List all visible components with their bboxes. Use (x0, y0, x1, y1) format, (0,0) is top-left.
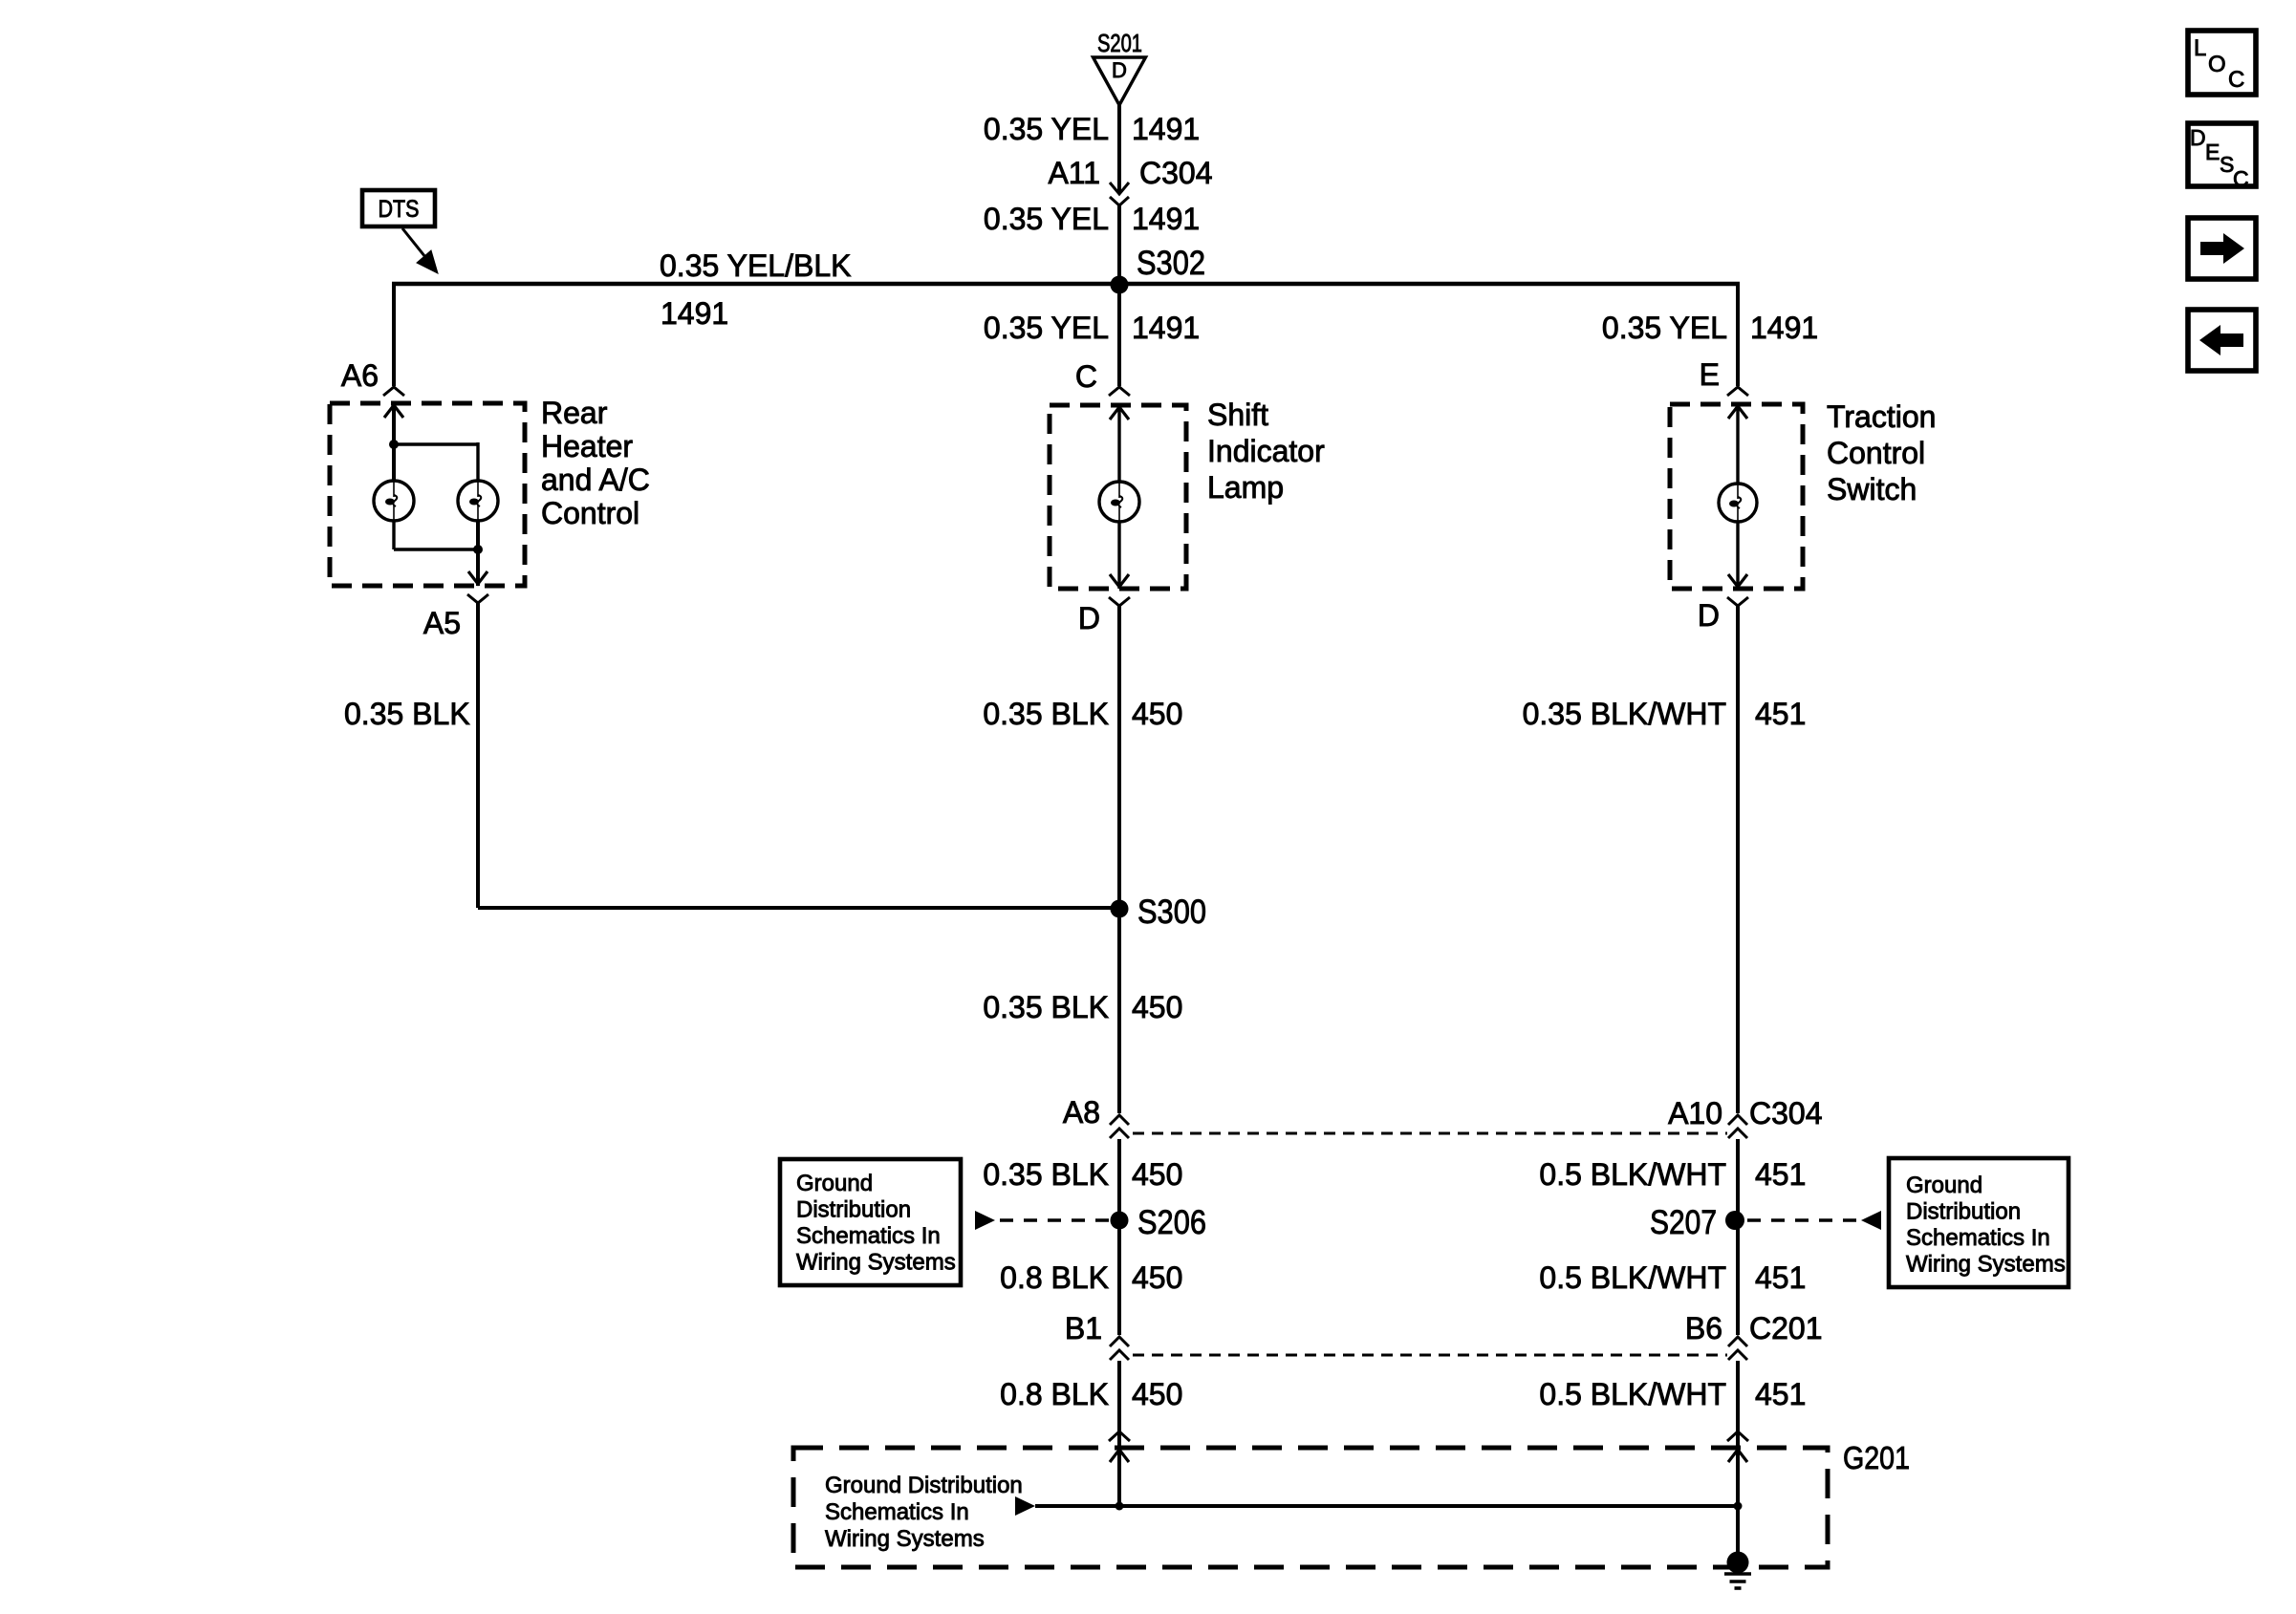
svg-text:RearHeaterand A/CControl: RearHeaterand A/CControl (541, 396, 650, 530)
icon box arrow right (2188, 218, 2256, 279)
svg-text:451: 451 (1755, 1377, 1806, 1411)
icon box arrow left (2188, 310, 2256, 371)
entry arrow at A6 inside box (384, 405, 403, 418)
svg-text:B1: B1 (1065, 1311, 1102, 1345)
pin chevron into G201 (right) (1727, 1431, 1748, 1441)
label box DTS (362, 190, 435, 226)
entry arrow at C inside box (1110, 407, 1129, 420)
exit arrow at D inside box (1728, 574, 1747, 587)
wire: left drop from bus to pin A6 (392, 284, 396, 386)
svg-text:0.35 BLK: 0.35 BLK (983, 697, 1109, 731)
wire: pin E down to lamp (1736, 404, 1739, 484)
junction dot center wire to ground bus (1116, 1502, 1124, 1511)
icon box DESC (2188, 123, 2256, 186)
wire 0.5 BLK/WHT 451 from C201 to ground G201 (1736, 1361, 1740, 1506)
callout arrow (right, pointing left) (1861, 1211, 1881, 1230)
dashed leader from S207 to callout (1747, 1218, 1856, 1221)
svg-text:0.8 BLK: 0.8 BLK (1000, 1377, 1109, 1411)
svg-text:0.8 BLK: 0.8 BLK (1000, 1260, 1109, 1295)
wire 0.5 BLK/WHT 451 from S207 to C201 pin B6 (1736, 1280, 1740, 1335)
lamp: shift indicator lamp (1099, 482, 1139, 522)
wire 0.35 BLK/WHT 451 from D down to C304 pin A10 (1736, 606, 1740, 1113)
entry arrow at E inside box (1728, 406, 1747, 419)
svg-text:0.35 YEL/BLK: 0.35 YEL/BLK (660, 248, 851, 283)
pin chevron into G201 (1109, 1431, 1130, 1441)
svg-text:S300: S300 (1137, 893, 1206, 931)
svg-text:A10: A10 (1668, 1096, 1722, 1130)
callout arrow inside G201 (1015, 1496, 1035, 1516)
svg-text:S302: S302 (1137, 245, 1205, 282)
svg-text:0.35 YEL: 0.35 YEL (984, 202, 1109, 236)
wire 0.8 BLK 450 from C201 to ground G201 (1117, 1361, 1121, 1506)
svg-text:B6: B6 (1685, 1311, 1722, 1345)
svg-text:D: D (1112, 58, 1127, 82)
svg-text:0.35 YEL: 0.35 YEL (1602, 311, 1727, 345)
svg-text:D: D (2190, 125, 2206, 150)
lamp: traction control switch illumination (1719, 484, 1757, 522)
svg-text:C: C (2228, 67, 2244, 93)
component box: Shift Indicator Lamp (dashed) (1050, 405, 1186, 589)
wire 0.35 YEL 1491 right drop from bus to pin E (1736, 284, 1740, 386)
wire 0.35 BLK 450 from D down to S300 (1117, 606, 1121, 910)
svg-text:S207: S207 (1650, 1204, 1717, 1241)
wire 0.35 YEL 1491 from S201 to C304 pin A11 (1117, 105, 1121, 192)
pin chevron D (1109, 597, 1130, 606)
svg-text:Ground DistributionSchematics: Ground DistributionSchematics InWiring S… (825, 1473, 1023, 1552)
ground terminal dot G201 (1727, 1552, 1749, 1574)
component box: Rear Heater and A/C Control (dashed) (330, 403, 525, 586)
pin chevron A5 (467, 594, 488, 603)
svg-text:C304: C304 (1749, 1096, 1823, 1130)
svg-text:0.5 BLK/WHT: 0.5 BLK/WHT (1539, 1377, 1726, 1411)
wire: lamp down to pin D (1117, 522, 1120, 589)
wire 0.5 BLK/WHT 451 from C304 to S207 (1736, 1139, 1740, 1280)
ground distribution callout box (right) (1889, 1158, 2069, 1287)
lamp 2 (rear heater A/C illumination) (458, 481, 498, 521)
svg-text:C: C (2233, 166, 2249, 191)
ground distribution box G201 (dashed) (793, 1448, 1828, 1567)
lamp 1 (rear heater A/C illumination) (374, 481, 414, 521)
connector C201 double chevron (B6) (1728, 1337, 1747, 1346)
svg-text:451: 451 (1755, 697, 1806, 731)
pin chevron D (right) (1727, 597, 1748, 606)
wire: horizontal bus from DTS corner to traction switch drop (0.35 YEL/BLK) (392, 282, 1740, 286)
wire 0.35 YEL 1491 from S302 down to pin C (1117, 284, 1121, 386)
svg-text:0.35 BLK/WHT: 0.35 BLK/WHT (1523, 697, 1726, 731)
entry arrow into G201 (right wire) (1728, 1450, 1747, 1462)
svg-text:A6: A6 (341, 358, 379, 393)
svg-text:0.35 BLK: 0.35 BLK (983, 990, 1109, 1024)
off-page connector triangle D from splice S201 (1094, 57, 1146, 105)
wire 0.35 BLK from A5 down to S300 (476, 603, 480, 908)
svg-text:DTS: DTS (379, 196, 420, 223)
DTS pointer arrow (402, 228, 429, 262)
ground symbol (1724, 1572, 1751, 1576)
connector C304 double chevron (A8) (1110, 1115, 1129, 1125)
ground bus wire inside G201 (1035, 1504, 1738, 1508)
junction dot splice S302 (1111, 276, 1129, 294)
svg-text:S201: S201 (1097, 29, 1142, 57)
svg-text:D: D (1698, 598, 1720, 633)
wire: A6 entry down to internal branch node (392, 403, 396, 481)
pin chevron E (1727, 387, 1748, 396)
svg-text:GroundDistributionSchematics I: GroundDistributionSchematics InWiring Sy… (796, 1171, 956, 1276)
connector C201 double chevron (B1) (1110, 1337, 1129, 1346)
svg-text:A5: A5 (423, 606, 461, 640)
exit arrow at A5 inside box (468, 571, 487, 584)
junction dot bottom branch (473, 545, 483, 554)
svg-text:E: E (1700, 357, 1720, 392)
wire 0.35 BLK 450 from C304 to S206 (1117, 1139, 1121, 1280)
svg-text:0.35 BLK: 0.35 BLK (344, 697, 470, 731)
svg-text:450: 450 (1132, 1377, 1182, 1411)
svg-text:O: O (2208, 52, 2226, 77)
wire: pin C down to lamp (1117, 405, 1120, 482)
connector C304 double chevron (A10) (1728, 1115, 1747, 1125)
wire 0.35 BLK 450 from S300 to C304 pin A8 (1117, 910, 1121, 1113)
svg-text:A11: A11 (1048, 156, 1100, 190)
svg-text:L: L (2194, 35, 2206, 61)
svg-text:1491: 1491 (1132, 311, 1200, 345)
ground distribution callout box (left) (780, 1159, 961, 1285)
svg-text:A8: A8 (1063, 1095, 1100, 1130)
exit arrow at D inside box (1110, 574, 1129, 587)
dashed leader from callout to S206 (1000, 1218, 1112, 1221)
svg-text:C304: C304 (1139, 156, 1213, 190)
icon box LOC (2188, 31, 2256, 95)
callout arrow (left, pointing right) (975, 1211, 995, 1230)
pin chevron C (1109, 387, 1130, 396)
svg-text:451: 451 (1755, 1260, 1806, 1295)
connector C201 separation dashed line (1133, 1354, 1727, 1357)
wire: ground bus down to ground point (1736, 1506, 1740, 1561)
svg-text:C201: C201 (1749, 1311, 1823, 1345)
svg-text:G201: G201 (1843, 1440, 1910, 1475)
junction dot splice S300 (1111, 900, 1129, 918)
junction dot splice S207 (1725, 1211, 1744, 1230)
junction dot right wire to ground bus (1734, 1502, 1743, 1511)
svg-text:E: E (2205, 140, 2220, 164)
svg-text:450: 450 (1132, 697, 1182, 731)
svg-text:451: 451 (1755, 1157, 1806, 1192)
svg-text:GroundDistributionSchematics I: GroundDistributionSchematics InWiring Sy… (1906, 1173, 2066, 1278)
svg-text:0.5 BLK/WHT: 0.5 BLK/WHT (1539, 1260, 1726, 1295)
wire: lamp down to pin D (1736, 522, 1739, 589)
connector C304 in-line double chevron (1110, 183, 1129, 194)
wire 0.35 YEL 1491 from C304 to splice S302 (1117, 205, 1121, 284)
svg-text:1491: 1491 (1750, 311, 1818, 345)
wire: lamp 1 down to bottom branch (392, 521, 395, 549)
connector C304 separation dashed line (1133, 1132, 1727, 1135)
pin chevron A6 (383, 387, 404, 396)
junction dot internal branch (389, 440, 399, 449)
svg-text:450: 450 (1132, 1157, 1182, 1192)
svg-text:ShiftIndicatorLamp: ShiftIndicatorLamp (1207, 398, 1325, 505)
svg-text:S206: S206 (1137, 1204, 1206, 1241)
component box: Traction Control Switch (dashed) (1670, 404, 1803, 589)
svg-text:1491: 1491 (1132, 112, 1200, 146)
svg-text:450: 450 (1132, 1260, 1182, 1295)
svg-text:TractionControlSwitch: TractionControlSwitch (1827, 399, 1936, 506)
svg-text:0.5 BLK/WHT: 0.5 BLK/WHT (1539, 1157, 1726, 1192)
svg-text:450: 450 (1132, 990, 1182, 1024)
svg-text:0.35 BLK: 0.35 BLK (983, 1157, 1109, 1192)
wire 0.8 BLK 450 from S206 to C201 pin B1 (1117, 1280, 1121, 1335)
wire: lamp 2 down to pin A5 (476, 521, 480, 586)
svg-text:0.35 YEL: 0.35 YEL (984, 112, 1109, 146)
svg-text:1491: 1491 (1132, 202, 1200, 236)
svg-text:0.35 YEL: 0.35 YEL (984, 311, 1109, 345)
svg-text:1491: 1491 (661, 296, 728, 331)
entry arrow into G201 (center wire) (1110, 1450, 1129, 1462)
svg-text:C: C (1075, 359, 1097, 394)
junction dot splice S206 (1111, 1212, 1129, 1230)
svg-text:D: D (1078, 601, 1100, 635)
wire: internal branch to second lamp (394, 442, 478, 445)
